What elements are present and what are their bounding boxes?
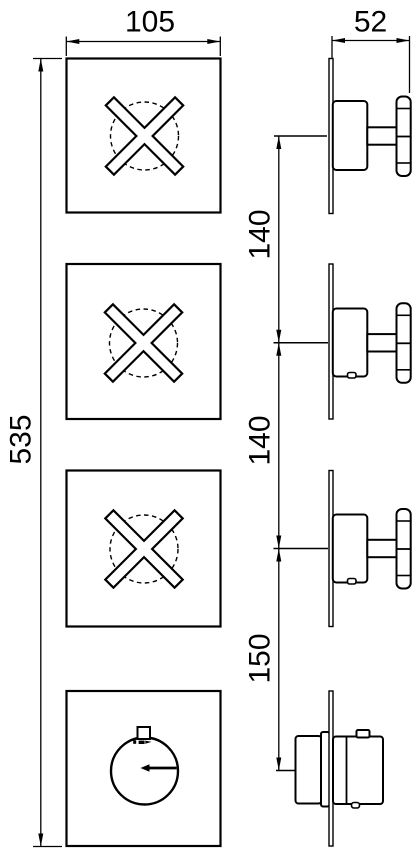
valve body side 3: [333, 515, 368, 583]
dashed circle rosette 1: [111, 102, 179, 170]
body drain bump 2: [348, 373, 357, 379]
cross handle 1: [75, 67, 214, 206]
knob temperature arrow: [141, 764, 177, 772]
dimension line 535: [33, 59, 62, 847]
thermostat knob circle: [111, 738, 178, 805]
centerline handle 2: [274, 342, 329, 344]
svg-text:535: 535: [5, 414, 38, 464]
handle stem side 3: [367, 540, 397, 557]
cross handle side 1: [397, 97, 411, 177]
svg-text:52: 52: [354, 6, 387, 39]
knob top tab: [138, 727, 151, 739]
dimension line 105: [66, 37, 220, 57]
dashed circle rosette 2: [110, 309, 178, 377]
cross handle 3: [75, 480, 214, 619]
knob skirt line side 4: [346, 737, 348, 805]
knob body side 4: [333, 737, 383, 805]
wall plate side 4: [329, 691, 333, 846]
handle stem side 2: [367, 334, 397, 351]
square panel 1: [67, 59, 221, 213]
vertical dimension chain line: [276, 136, 281, 771]
cross handle side 3: [397, 509, 411, 589]
knob bottom bump side 4: [352, 803, 360, 809]
svg-text:150: 150: [244, 633, 277, 683]
valve body side 2: [333, 309, 368, 377]
dashed circle rosette 3: [110, 515, 178, 583]
wall plate side 3: [329, 471, 333, 627]
centerline handle 1: [274, 135, 327, 137]
valve body side 1: [333, 101, 368, 170]
thermostat cartridge box side 4: [296, 736, 322, 804]
centerline handle 3: [274, 548, 329, 550]
knob scale marks: [133, 740, 151, 744]
square panel 2: [67, 264, 221, 419]
square panel 3: [67, 471, 221, 627]
svg-text:105: 105: [125, 6, 175, 39]
svg-text:140: 140: [244, 209, 277, 259]
centerline knob 4: [276, 770, 315, 772]
wall plate side 1: [329, 59, 333, 214]
cross handle 2: [74, 274, 213, 413]
handle stem side 1: [367, 127, 397, 144]
wall plate side 2: [329, 264, 333, 419]
cross handle side 2: [397, 303, 411, 383]
square panel 4: [67, 691, 221, 846]
collar side 4: [321, 732, 330, 807]
body drain bump 3: [348, 579, 357, 585]
dimension line 52: [332, 36, 410, 93]
knob tab side 4: [357, 730, 370, 738]
svg-text:140: 140: [244, 415, 277, 465]
